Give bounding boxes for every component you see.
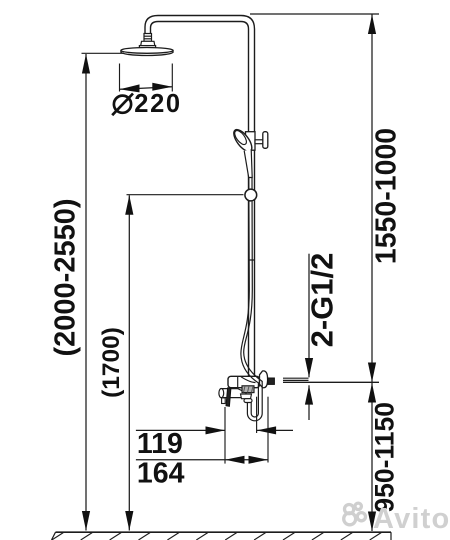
dim right top extension line — [250, 13, 379, 15]
diverter block — [242, 386, 254, 393]
shower head disc rim — [121, 48, 173, 55]
slider knob stem — [255, 140, 263, 144]
dim (1700) extension line — [127, 194, 244, 196]
shower head disc top face — [121, 48, 173, 54]
mixer body shading line — [241, 377, 256, 383]
hand shower head — [230, 127, 255, 154]
dim 119 extension line left — [224, 407, 226, 464]
dimension line (1700) — [128, 195, 130, 530]
spout — [222, 389, 247, 398]
spout end cap — [219, 389, 224, 398]
dimension line 950-1150 — [371, 383, 373, 531]
dimension line 1550-1000 — [371, 15, 373, 383]
floor line — [56, 531, 392, 533]
svg-text:119: 119 — [137, 428, 183, 460]
hose lower diagonal and U loop outer line — [244, 353, 263, 421]
spout outlet stub — [222, 398, 226, 404]
dim 119 extension line middle — [256, 397, 258, 433]
dimension line (2000-2550) — [85, 54, 87, 531]
hand shower handle — [244, 149, 252, 177]
wall stub square — [268, 378, 275, 384]
svg-text:Avito: Avito — [373, 503, 450, 535]
inlet reference line — [283, 381, 379, 383]
dim 2-G1/2 leader upper — [308, 254, 310, 378]
floor hatching — [52, 533, 381, 540]
dim 220 extension lines — [119, 64, 121, 92]
spout aerator block — [241, 394, 252, 399]
shower head upper cone — [141, 41, 155, 45]
inlet nipple double line — [283, 377, 309, 379]
svg-text:(1700): (1700) — [98, 327, 125, 398]
dim 164 extension line right — [267, 397, 269, 463]
aerator cap — [244, 399, 252, 403]
hand shower hose upper run inner — [241, 178, 249, 355]
hand shower slider bracket — [246, 132, 256, 151]
avito watermark logo — [344, 503, 366, 525]
shower head flange — [139, 46, 155, 49]
shower arm and riser pipe inner line — [151, 22, 249, 377]
svg-text:1550-1000: 1550-1000 — [370, 128, 402, 264]
shower arm and riser pipe outer line — [145, 16, 255, 377]
hose lower diagonal and U loop inner line — [241, 354, 259, 417]
svg-text:2-G1/2: 2-G1/2 — [305, 253, 340, 348]
svg-text:(2000-2550): (2000-2550) — [50, 199, 82, 357]
mixer lever handle — [226, 388, 231, 406]
svg-text:164: 164 — [137, 458, 185, 490]
hose guide ring on pipe — [245, 189, 257, 201]
svg-text:220: 220 — [134, 90, 181, 118]
dim 2-G1/2 leader lower — [308, 385, 310, 420]
svg-text:950-1150: 950-1150 — [369, 402, 399, 513]
label Ø220 — [112, 90, 181, 118]
dim left extension line top — [82, 52, 125, 54]
dimension line 119 — [136, 429, 225, 431]
wall bell escutcheon — [260, 371, 268, 388]
hand shower hose upper run outer — [244, 178, 253, 353]
slider knob bar — [263, 132, 268, 149]
mixer body divider — [237, 376, 239, 387]
mixer body — [228, 376, 260, 387]
dimension line 164 — [136, 459, 268, 461]
dimension line 220 — [120, 87, 173, 90]
pipe joint tick — [249, 259, 255, 261]
shower head connector nut — [144, 34, 152, 42]
